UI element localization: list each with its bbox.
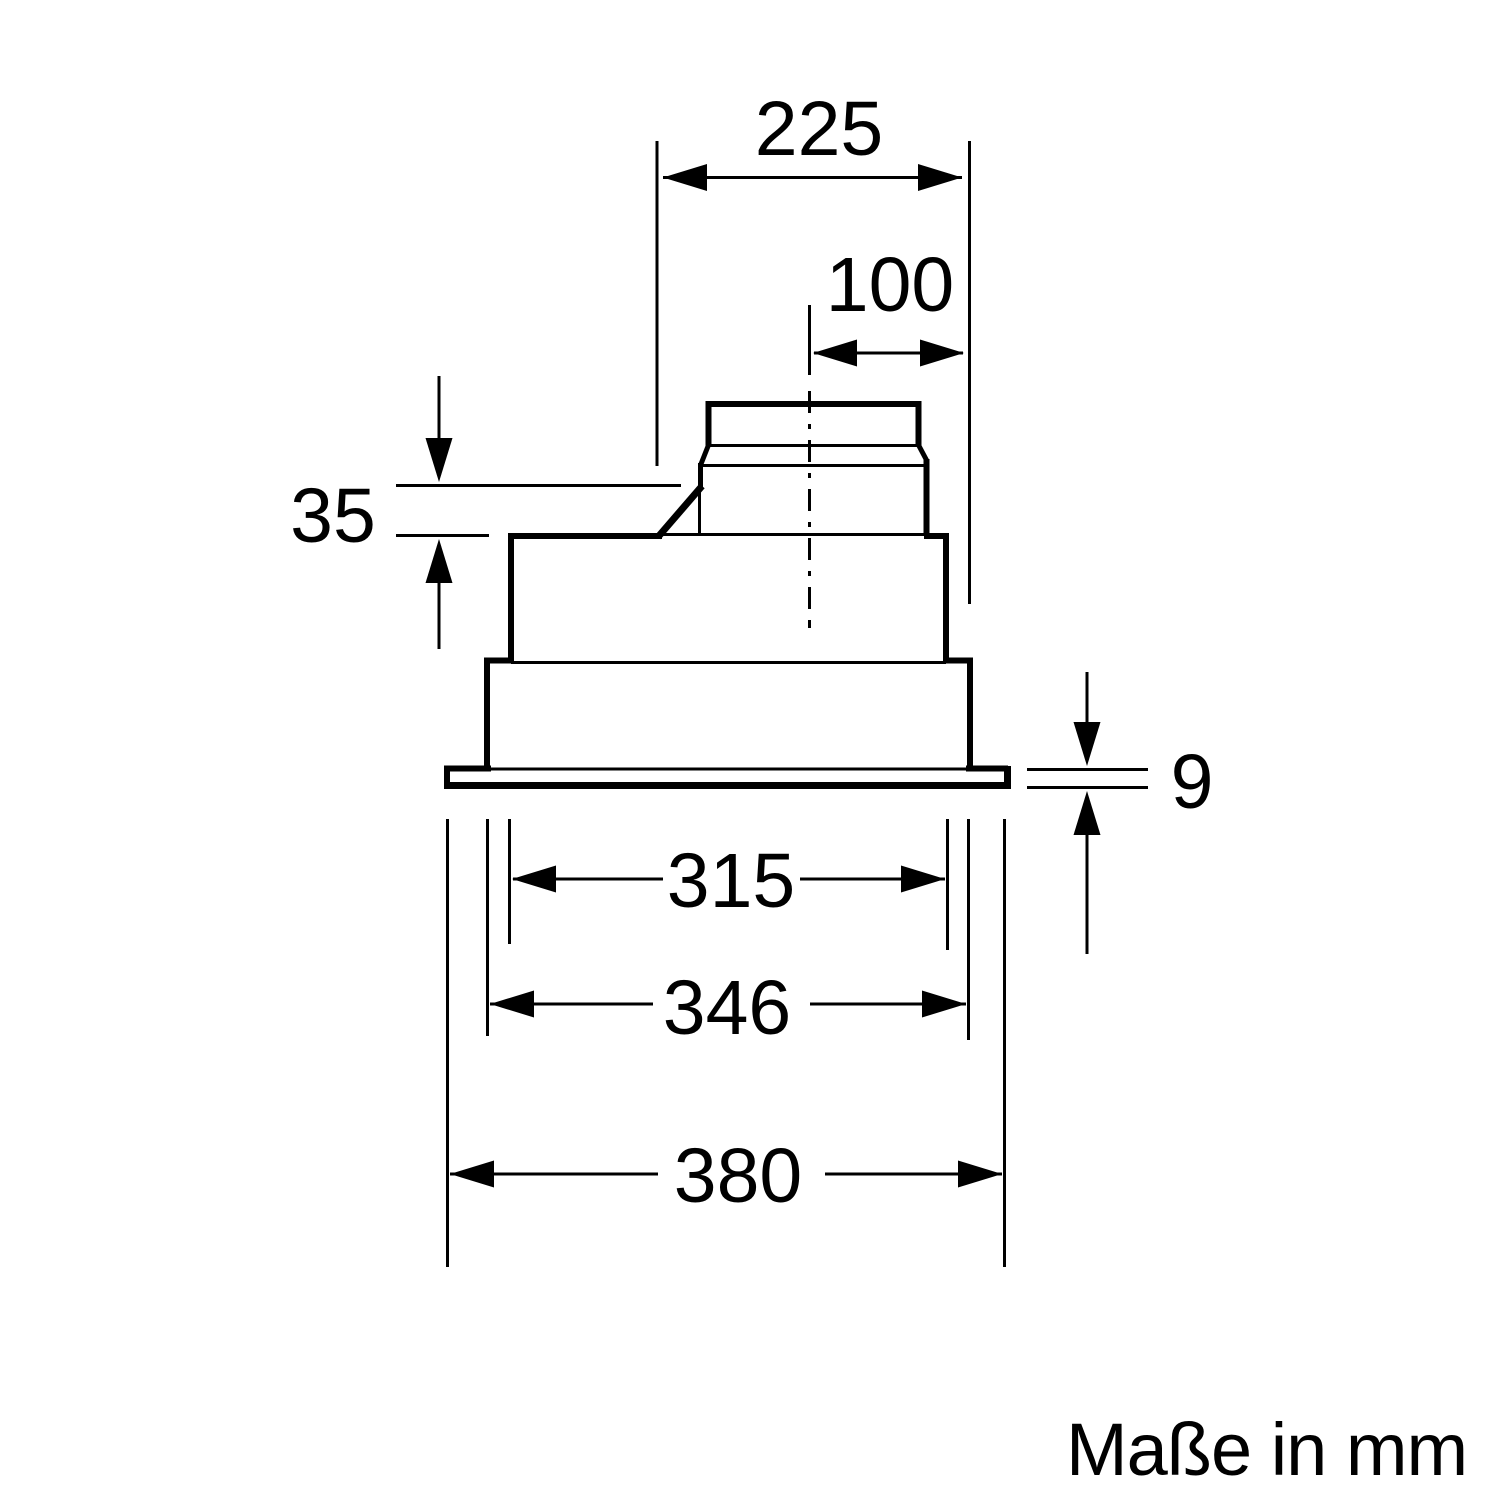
dimension 100 left arrowhead (813, 340, 857, 367)
duct collar upper section (709, 404, 919, 447)
hood top right step and mid body right wall (924, 536, 946, 663)
dimension 346 right extension line (967, 819, 970, 1040)
svg-text:35: 35 (290, 473, 376, 559)
dimension 315 right arrowhead (901, 866, 945, 893)
dimension 35 up arrow shaft (438, 581, 441, 649)
svg-text:315: 315 (667, 838, 795, 924)
dimension 35 top reference line (396, 484, 681, 487)
mid body bottom thin line (511, 661, 946, 664)
dimension 35 down arrow shaft (438, 376, 441, 444)
dimension 315 left extension line (508, 819, 511, 944)
dimension 9 up arrowhead (1074, 791, 1101, 835)
dimension 100 right arrowhead (920, 340, 964, 367)
flange top thick left (444, 766, 491, 772)
dimension 100 line (814, 352, 963, 355)
dimension 9 up arrow shaft (1086, 833, 1089, 954)
flange right end (1004, 766, 1011, 789)
dimension 380 right extension line (1003, 819, 1006, 1267)
dimension 380 right arrowhead (958, 1161, 1002, 1188)
hood top thin line behind collar (660, 533, 924, 536)
svg-text:346: 346 (663, 965, 791, 1051)
dimension 380 line left segment (450, 1173, 658, 1176)
dimension 225 line (663, 176, 962, 179)
dimension 225 right arrowhead (918, 164, 962, 191)
dimension 346 left extension line (486, 819, 489, 1036)
hood slope diagonal (658, 486, 702, 537)
collar crease line upper (709, 444, 918, 447)
flange top thick right (966, 766, 1008, 772)
flange bottom edge (444, 782, 1011, 789)
svg-text:100: 100 (826, 242, 954, 328)
svg-text:225: 225 (755, 86, 883, 172)
dimension 315 line left segment (513, 878, 663, 881)
dimension 225 left arrowhead (663, 164, 707, 191)
lower body left step and wall (487, 661, 514, 771)
collar crease line lower (701, 464, 927, 467)
svg-text:380: 380 (674, 1133, 802, 1219)
flange top thin line (451, 768, 1004, 771)
dimension 346 right arrowhead (922, 991, 966, 1018)
dimension 35 bottom reference line (396, 534, 489, 537)
collar left flare (701, 445, 709, 464)
dimension 9 bottom line (1027, 786, 1148, 789)
svg-text:9: 9 (1171, 739, 1214, 825)
dimension 380 line right segment (825, 1173, 1002, 1176)
dimension 315 right extension line (946, 819, 949, 950)
lower body right step and wall (943, 661, 970, 771)
dimension 315 line right segment (800, 878, 945, 881)
flange left end (444, 766, 450, 788)
dimension 9 down arrow shaft (1086, 672, 1089, 728)
collar left hidden edge (698, 488, 701, 534)
dimension 225/100 right extension line (968, 141, 971, 604)
dimension 225 left extension line (656, 141, 659, 466)
collar right flare (919, 445, 928, 461)
dimension 9 top line (1027, 768, 1148, 771)
dimension 315 left arrowhead (512, 866, 556, 893)
dimension 380 left arrowhead (450, 1161, 494, 1188)
hood top and mid body left wall (511, 536, 662, 663)
dimension 346 left arrowhead (490, 991, 534, 1018)
collar right wall lower (924, 459, 930, 536)
dimension 346 line right segment (810, 1003, 966, 1006)
collar left wall lower (698, 463, 703, 490)
dimension 35 up arrowhead (426, 539, 453, 583)
dimension 9 down arrowhead (1074, 722, 1101, 766)
vertical centerline dash-dot (808, 305, 811, 628)
dimension 35 down arrowhead (426, 438, 453, 482)
dimension 346 line left segment (490, 1003, 653, 1006)
dimension 380 left extension line (446, 819, 449, 1267)
svg-text:Maße in mm: Maße in mm (1066, 1408, 1467, 1491)
